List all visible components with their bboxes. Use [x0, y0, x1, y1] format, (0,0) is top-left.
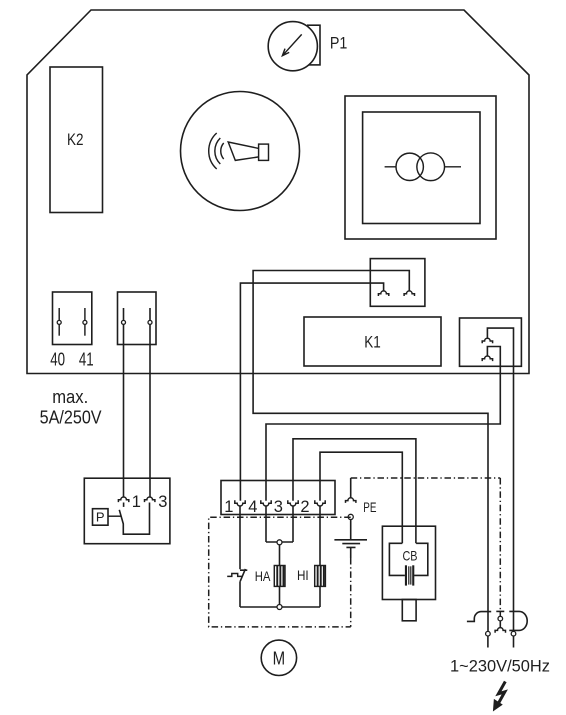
svg-text:max.: max.: [52, 387, 88, 407]
CB inner plug outline: [389, 543, 427, 575]
PE dash-dot drop to plug: [499, 478, 501, 616]
svg-text:3: 3: [158, 493, 167, 511]
terminal strip: [221, 481, 335, 515]
connector X1 left socket: [378, 291, 388, 296]
svg-text:HI: HI: [297, 567, 309, 583]
transformer winding 2: [417, 153, 445, 181]
plug PE socket: [495, 628, 505, 633]
plug contact L: [486, 631, 491, 636]
terminal 4 contact: [261, 500, 271, 506]
wire: HI to bottom bar: [319, 586, 321, 607]
wire: terminal 4 down: [265, 506, 267, 542]
earth stub: [350, 547, 352, 558]
plug stub N: [513, 636, 515, 648]
svg-text:P: P: [96, 510, 105, 525]
wire: terminal 2 to HI: [319, 506, 321, 566]
terminal 41: [84, 308, 86, 336]
bottom bar: [240, 606, 320, 608]
connector block X1: [370, 259, 425, 307]
connector X2 top socket: [482, 338, 492, 343]
thermal contact WSK: [240, 569, 247, 581]
winding HA: [274, 566, 285, 587]
control box enclosure: [27, 10, 529, 374]
svg-text:2: 2: [300, 498, 309, 516]
lightning bolt: [498, 682, 505, 703]
P actuator link: [108, 515, 121, 517]
wire: X1 left socket to terminal 1: [240, 283, 383, 501]
wire: terminal 2 to capacitor box: [320, 452, 402, 543]
svg-text:K1: K1: [364, 333, 381, 352]
svg-text:3: 3: [274, 498, 283, 516]
buzzer circle: [181, 92, 300, 211]
wire: PE contact to socket: [499, 621, 501, 628]
relay K1: [304, 317, 441, 366]
transformer outer box: [345, 96, 496, 239]
wire: terminal 3 down: [292, 506, 294, 542]
capacitor CB plates: [405, 565, 407, 585]
PE junction: [348, 514, 353, 519]
svg-text:P1: P1: [330, 34, 348, 53]
plug right bulge: [509, 611, 527, 630]
transformer inner box: [363, 112, 480, 224]
motor dash-dot boundary: [209, 517, 351, 627]
connector block X2: [460, 318, 522, 366]
svg-text:K2: K2: [67, 130, 84, 149]
terminal 3 contact: [288, 500, 298, 506]
buzzer horn body: [259, 144, 269, 160]
P switch blade: [119, 503, 149, 535]
junction ring top: [277, 540, 282, 545]
terminal block pressure switch: [118, 292, 157, 345]
gauge needle arrow: [282, 34, 301, 55]
wire: terminal to P-switch pin 1: [123, 308, 125, 497]
thermal actuator: [227, 574, 242, 577]
winding HI: [315, 566, 326, 587]
svg-text:5A/250V: 5A/250V: [40, 408, 102, 428]
plug stub L: [487, 636, 489, 648]
pressure gauge P1 mount: [308, 25, 320, 65]
svg-text:40: 40: [50, 350, 65, 370]
pressure switch box: [84, 478, 170, 544]
mains plug ticks: [496, 610, 504, 612]
plug contact N: [511, 631, 516, 636]
CB cable stub: [402, 600, 416, 621]
svg-text:4: 4: [248, 498, 257, 516]
wire: terminal 1 to thermal contact: [239, 506, 241, 569]
wire: X2 top socket to mains N: [487, 328, 513, 631]
earth symbol: [334, 540, 367, 548]
motor M: [261, 640, 296, 675]
transformer leads: [385, 166, 461, 168]
motor boundary right dash-dot: [350, 558, 352, 627]
wire: thermal contact to bottom bar: [239, 581, 241, 607]
svg-text:HA: HA: [255, 568, 271, 584]
relay K2: [50, 67, 103, 213]
P contact stem: [123, 503, 125, 507]
wire: PE drop to socket: [350, 478, 352, 498]
P actuator box: [93, 509, 109, 526]
plug contact PE: [498, 616, 503, 621]
connector X2 bottom socket: [482, 356, 492, 361]
wire: terminal 3 to capacitor box: [293, 439, 416, 544]
pressure gauge P1: [268, 22, 317, 71]
plug left hook: [467, 612, 491, 622]
wire: junction to HA: [279, 545, 281, 566]
svg-text:1~230V/50Hz: 1~230V/50Hz: [450, 656, 550, 675]
svg-text:1: 1: [132, 493, 141, 511]
wire: X2 bottom socket to terminal 4: [266, 347, 500, 501]
wire: terminal to P-switch pin 3: [149, 308, 151, 497]
junction bar 4-3: [266, 541, 293, 543]
transformer winding 1: [396, 153, 423, 180]
buzzer horn cone: [228, 142, 258, 160]
svg-text:1: 1: [224, 498, 233, 516]
PE branch dash-dot: [351, 477, 501, 479]
connector X1 right socket: [404, 291, 414, 296]
terminal 1 contact: [235, 500, 245, 506]
svg-text:PE: PE: [363, 499, 376, 515]
terminal 2 contact: [315, 500, 325, 506]
P-switch socket 3: [145, 497, 155, 502]
wire: PE to earth: [350, 519, 352, 540]
svg-text:41: 41: [79, 350, 94, 370]
capacitor box CB: [382, 526, 435, 599]
terminal block 40/41: [53, 292, 92, 345]
wire: X1 right socket to mains L: [253, 271, 488, 632]
P-switch socket 1: [118, 497, 128, 502]
svg-text:CB: CB: [403, 548, 418, 564]
junction ring bottom: [277, 605, 282, 610]
svg-text:M: M: [273, 647, 286, 668]
wire: HA to bottom bar: [279, 586, 281, 607]
terminal 40: [58, 308, 60, 336]
buzzer sound waves: [209, 133, 224, 169]
PE socket: [346, 498, 356, 503]
